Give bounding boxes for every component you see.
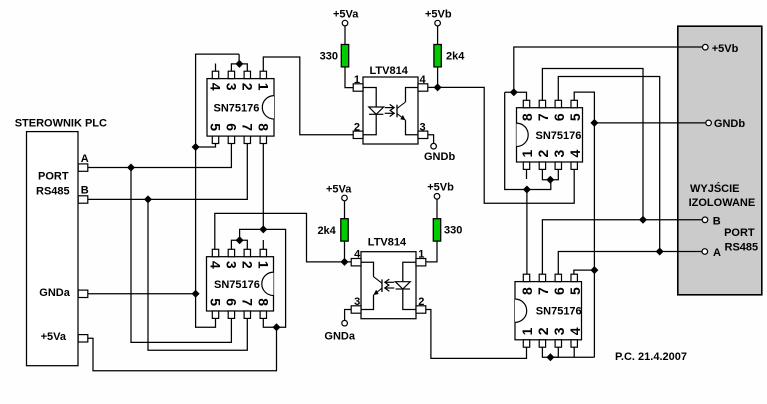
junction GNDb top xyxy=(590,119,598,127)
module terminal GNDb xyxy=(706,120,712,126)
wire net GNDa riser: TL pins2,3 bar down to BL pin5 xyxy=(196,54,240,327)
svg-text:GNDa: GNDa xyxy=(324,331,355,343)
stub TR pin1 (NC) xyxy=(526,169,528,179)
svg-text:RS485: RS485 xyxy=(725,241,759,253)
svg-text:3: 3 xyxy=(551,327,567,335)
svg-text:3: 3 xyxy=(551,150,567,158)
wire +5Va terminal to R1 xyxy=(344,26,346,45)
svg-text:6: 6 xyxy=(551,113,567,121)
svg-text:SN75176: SN75176 xyxy=(536,130,582,142)
module terminal A xyxy=(702,249,708,255)
wire net GNDa: TL pin5 leg xyxy=(196,143,216,147)
svg-text:4: 4 xyxy=(354,249,361,261)
wire net +5Vb: top run to module box xyxy=(505,92,527,100)
wire net GNDb: riser down xyxy=(593,123,595,357)
svg-text:330: 330 xyxy=(444,225,462,237)
module terminal +5Vb xyxy=(703,44,709,50)
svg-text:2: 2 xyxy=(535,150,551,158)
wire opto U5 pin4 to node xyxy=(428,86,438,88)
junction GNDa at TL pins2-3 bar xyxy=(235,60,243,68)
svg-text:2k4: 2k4 xyxy=(446,51,465,63)
svg-text:2k4: 2k4 xyxy=(317,225,336,237)
svg-text:2: 2 xyxy=(418,296,424,308)
wire net GNDa: PLC GNDa pin to riser xyxy=(88,293,196,295)
terminal +5Va (opto2) xyxy=(342,195,348,201)
PLC controller box (STEROWNIK PLC) xyxy=(27,132,79,366)
svg-text:B: B xyxy=(713,216,721,228)
svg-text:1: 1 xyxy=(255,261,271,269)
svg-text:P.C. 21.4.2007: P.C. 21.4.2007 xyxy=(615,351,687,363)
svg-text:+5Vb: +5Vb xyxy=(427,182,454,194)
svg-text:1: 1 xyxy=(354,74,360,86)
junction +5Vb at TR pins2-3 bar xyxy=(546,176,554,184)
svg-text:4: 4 xyxy=(567,327,583,335)
svg-text:GNDb: GNDb xyxy=(424,151,455,163)
optocoupler U5 LTV814 top xyxy=(363,77,418,144)
svg-text:6: 6 xyxy=(223,123,239,131)
svg-text:2: 2 xyxy=(239,83,255,91)
svg-text:4: 4 xyxy=(208,261,224,269)
wire R4 to opto U6 pin1 xyxy=(426,241,437,262)
svg-text:4: 4 xyxy=(420,74,427,86)
wire opto U6 pin3 to GNDa terminal xyxy=(345,310,353,321)
isolated output module box xyxy=(678,26,762,295)
junction +5Va upper at TL pin8 column xyxy=(259,225,267,233)
wire net Bout: BR pin7 to module B terminal xyxy=(542,220,702,274)
resistor R2 2k4 xyxy=(434,45,441,67)
junction GNDb at BR pins2-3 bar xyxy=(546,353,554,361)
resistor R4 330 xyxy=(433,219,440,241)
svg-text:A: A xyxy=(81,153,89,165)
junction +5Va lower xyxy=(273,323,281,331)
wire net +5Va: link to BL pins2-3 bar xyxy=(240,229,264,240)
PLC pin +5Va xyxy=(78,335,88,342)
resistor R1 330 xyxy=(341,45,348,67)
wire net +5Vb: left drop to TR pins2-3 xyxy=(505,92,551,189)
terminal GNDb (mid) xyxy=(431,143,437,149)
svg-text:5: 5 xyxy=(208,123,224,131)
stub BL pin1 (NC) xyxy=(262,240,264,249)
wire net +5Vb: riser to module +5Vb terminal xyxy=(514,47,703,92)
terminal +5Vb (top) xyxy=(435,20,441,26)
stub BR pin4 (NC) xyxy=(573,347,575,357)
svg-text:SN75176: SN75176 xyxy=(214,102,260,114)
svg-text:5: 5 xyxy=(567,113,583,121)
svg-text:6: 6 xyxy=(551,287,567,295)
wire +5Va terminal to R3 (2k4) xyxy=(344,201,346,219)
resistor R3 2k4 xyxy=(341,219,348,241)
svg-text:GNDb: GNDb xyxy=(714,118,745,130)
svg-text:2: 2 xyxy=(354,121,360,133)
junction GNDa at PLC wire xyxy=(192,290,200,298)
svg-text:3: 3 xyxy=(354,296,360,308)
svg-text:4: 4 xyxy=(208,83,224,91)
svg-text:GNDa: GNDa xyxy=(39,287,70,299)
svg-text:RS485: RS485 xyxy=(36,185,70,197)
svg-text:330: 330 xyxy=(320,51,338,63)
wire net +5Va: riser to TL pin8 and BL pins2-3 xyxy=(263,143,285,327)
wire +5Vb terminal to R2 xyxy=(437,26,439,45)
svg-text:SN75176: SN75176 xyxy=(214,279,260,291)
svg-text:LTV814: LTV814 xyxy=(370,65,409,77)
svg-text:B: B xyxy=(81,185,89,197)
IC U4 SN75176 bottom-right xyxy=(515,282,582,340)
module terminal B xyxy=(702,217,708,223)
svg-text:1: 1 xyxy=(519,150,535,158)
svg-text:+5Vb: +5Vb xyxy=(712,43,739,55)
junction node A1 xyxy=(127,164,135,172)
wire net +5Vb: drop to BR pin8 xyxy=(526,190,528,275)
junction node B1 xyxy=(144,195,152,203)
svg-text:6: 6 xyxy=(223,298,239,306)
svg-text:1: 1 xyxy=(255,83,271,91)
svg-text:3: 3 xyxy=(420,121,426,133)
svg-text:5: 5 xyxy=(567,287,583,295)
wire opto U5 pin3 to GNDb terminal xyxy=(428,135,434,144)
wire R2 to opto U5 pin4 node xyxy=(437,67,439,88)
wire net GNDb: BR pin5 leg xyxy=(574,270,595,274)
wire net GNDb: BR pins2-3 bar link xyxy=(550,356,594,358)
svg-text:PORT: PORT xyxy=(724,227,755,239)
svg-text:A: A xyxy=(713,247,721,259)
svg-text:PORT: PORT xyxy=(38,171,69,183)
wire opto U5 pin4 node to TR pin4 xyxy=(438,87,575,203)
svg-text:7: 7 xyxy=(535,113,551,121)
wire net Aout: BR pin6 to module A terminal xyxy=(558,252,702,275)
junction +5Va at BL pins2-3 bar xyxy=(236,236,244,244)
junction opto U5 pin4 node xyxy=(434,83,442,91)
svg-text:+5Va: +5Va xyxy=(41,331,67,343)
optocoupler U6 LTV814 bottom xyxy=(361,252,416,319)
svg-text:4: 4 xyxy=(567,150,583,158)
wire net A: down branch to BL pin6 xyxy=(131,168,231,343)
IC U2 SN75176 bottom-left xyxy=(207,257,274,311)
svg-text:8: 8 xyxy=(255,123,271,131)
svg-text:IZOLOWANE: IZOLOWANE xyxy=(689,197,756,209)
wire +5Vb terminal to R4 (330) xyxy=(436,199,438,219)
terminal GNDa (opto2) xyxy=(342,320,348,326)
junction +5Vb top xyxy=(510,88,518,96)
PLC pin B xyxy=(78,196,88,203)
svg-text:2: 2 xyxy=(535,327,551,335)
svg-text:5: 5 xyxy=(208,298,224,306)
svg-text:7: 7 xyxy=(239,298,255,306)
stub TL pin4 (NC) xyxy=(215,64,217,72)
wire net +5Va: BL pins 2-3 tie bar xyxy=(231,240,247,249)
svg-text:+5Vb: +5Vb xyxy=(425,8,452,20)
wire opto U6 pin2 to BR pin1 xyxy=(426,310,526,359)
svg-text:SN75176: SN75176 xyxy=(536,306,582,318)
wire net A: PLC pin A to TL pin6 xyxy=(88,143,232,167)
junction Bout xyxy=(639,216,647,224)
svg-text:WYJŚCIE: WYJŚCIE xyxy=(690,182,740,195)
svg-text:7: 7 xyxy=(535,287,551,295)
IC U3 SN75176 top-right xyxy=(517,108,583,162)
terminal +5Va (top) xyxy=(342,20,348,26)
wire net +5Va: PLC +5Va pin bottom run xyxy=(88,327,277,370)
wire net GNDb: to module GNDb terminal xyxy=(594,122,705,124)
wire BL pin4 to opto U6 pin4 node xyxy=(215,213,352,262)
wire R3 to opto U6 pin4 node xyxy=(344,241,346,262)
svg-text:2: 2 xyxy=(239,261,255,269)
wire net GNDa: drop from bar corner xyxy=(238,54,240,64)
wire net +5Va: BL pin8 leg xyxy=(263,318,276,327)
svg-text:STEROWNIK PLC: STEROWNIK PLC xyxy=(15,118,107,130)
svg-text:8: 8 xyxy=(519,287,535,295)
IC U1 SN75176 top-left xyxy=(207,79,274,137)
svg-text:3: 3 xyxy=(223,261,239,269)
wire R1 to opto U5 pin1 xyxy=(345,67,353,88)
wire net GNDa: TL pins 2-3 tie bar xyxy=(231,64,247,71)
terminal +5Vb (opto2) xyxy=(434,194,440,200)
wire net +5Vb: TR pins 2-3 tie bar xyxy=(542,169,558,179)
svg-text:1: 1 xyxy=(418,249,424,261)
junction GNDa at TL pin5 leg xyxy=(192,143,200,151)
PLC pin GNDa xyxy=(78,290,88,297)
svg-text:1: 1 xyxy=(519,327,535,335)
junction +5Vb mid xyxy=(523,186,531,194)
wire TL pin1 to opto U5 pin2 xyxy=(263,57,353,135)
junction GNDb at BR pin5 leg xyxy=(590,266,598,274)
wire net B: PLC pin B to TL pin7 xyxy=(88,143,248,199)
junction Aout xyxy=(656,248,664,256)
svg-text:3: 3 xyxy=(223,83,239,91)
wire net B: down branch to BL pin7 xyxy=(148,199,247,350)
PLC pin A xyxy=(78,164,88,171)
svg-text:8: 8 xyxy=(255,298,271,306)
wire net GNDb: BR pins 2-3 tie bar xyxy=(542,347,558,357)
wire net GNDb: TR pin5 to riser xyxy=(574,92,594,123)
svg-text:7: 7 xyxy=(239,123,255,131)
junction opto U6 pin4 node xyxy=(341,258,349,266)
svg-text:LTV814: LTV814 xyxy=(368,237,407,249)
wire net Aout: TR pin6 top run xyxy=(558,77,659,252)
wire net Bout: TR pin7 top run xyxy=(542,69,643,220)
svg-text:+5Va: +5Va xyxy=(326,184,352,196)
svg-text:+5Va: +5Va xyxy=(333,8,359,20)
svg-text:8: 8 xyxy=(519,113,535,121)
